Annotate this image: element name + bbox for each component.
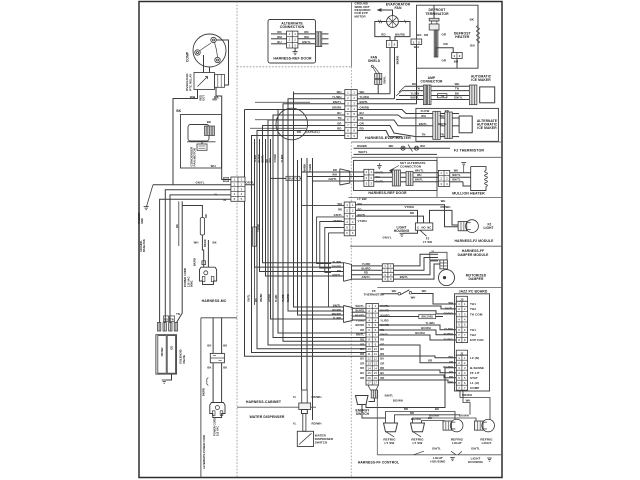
svg-text:BU/RD: BU/RD [332, 308, 341, 312]
svg-text:BK: BK [435, 407, 439, 411]
svg-text:BK/RB: BK/RB [395, 56, 399, 65]
compressor terminal C [195, 50, 200, 55]
wire overload to condenser right [216, 87, 231, 179]
harness-mc box top edge [201, 317, 237, 319]
alt ice cylinders [433, 111, 441, 139]
wire FF row right 2 [379, 311, 457, 314]
ff control box bottom [377, 454, 502, 456]
svg-text:OR: OR [380, 376, 384, 380]
wire through boxed label [379, 316, 419, 318]
refrig light switch 2 body [411, 423, 425, 432]
ff control box left edge [376, 390, 378, 455]
harness-evap/heater 9-pin connector [345, 90, 358, 139]
svg-text:HOUSING: HOUSING [394, 229, 410, 233]
J2 connector [456, 296, 467, 301]
wire energy to J1 BG/WH [366, 368, 456, 408]
svg-text:GN/YL: GN/YL [454, 96, 463, 100]
wires AMP left [405, 85, 423, 87]
solenoid coil water [158, 336, 166, 374]
F2 light bulb [458, 220, 478, 233]
svg-text:BU/GY: BU/GY [289, 177, 298, 181]
wire mc right yl/rd [245, 185, 255, 227]
svg-text:YL: YL [293, 395, 297, 399]
J1 connector [456, 350, 467, 355]
wire alt conn row3 [271, 43, 287, 45]
stat switch wire [381, 293, 398, 295]
svg-text:YL/WH: YL/WH [444, 327, 453, 331]
solenoid ground wire [166, 374, 171, 380]
svg-text:WH: WH [422, 289, 427, 293]
wires 9pin rows to alt ice box [357, 110, 416, 114]
svg-text:TN: TN [422, 133, 426, 137]
fan connector 1-2 box [386, 40, 397, 47]
svg-text:WH: WH [277, 35, 282, 39]
wire RD to switch NO [356, 216, 424, 223]
wire WH bottom [463, 391, 470, 415]
svg-text:10: 10 [374, 347, 378, 351]
svg-text:WH: WH [440, 114, 445, 118]
power cord plug main [200, 267, 217, 284]
wire bundle line 3 [283, 104, 366, 341]
svg-text:BK: BK [223, 344, 227, 348]
wire J1 RD row [379, 375, 457, 378]
wire shield down to bundle [377, 85, 379, 94]
svg-text:COMP: COMP [470, 386, 479, 390]
refrig light switch 1 body [384, 423, 398, 432]
svg-text:SWITCH: SWITCH [315, 440, 327, 444]
svg-text:RD: RD [410, 411, 414, 415]
svg-text:BU/RD: BU/RD [361, 266, 370, 270]
compressor motor circle [193, 34, 226, 67]
wire compressor S right side [216, 40, 229, 85]
wire bundle line 6 [268, 120, 366, 345]
wire terminator OR down left side [435, 30, 437, 48]
svg-text:VT/WH: VT/WH [333, 219, 342, 223]
svg-text:RD: RD [337, 269, 341, 273]
splice arrow [408, 145, 413, 152]
F2 light switch box [415, 223, 432, 230]
wire WH/BK splice line [354, 147, 451, 149]
evaporator fan circle [387, 16, 399, 28]
svg-text:YL/RD: YL/RD [362, 262, 371, 266]
wire vertical through circle [293, 92, 295, 308]
harness-mc 5-pin connector [231, 177, 245, 201]
svg-text:WH: WH [194, 241, 199, 245]
note arrow [378, 10, 393, 16]
band line F2 module bottom [350, 245, 502, 247]
wire cylinder down [254, 246, 256, 305]
svg-text:BK: BK [175, 224, 179, 228]
wire 1-2 to heater loop bottom [456, 59, 458, 69]
extra center verticals from 6-pin connector [317, 217, 345, 264]
svg-text:BN/TL: BN/TL [411, 96, 420, 100]
svg-text:BU: BU [380, 371, 384, 375]
ice maker box [480, 87, 495, 103]
wire bundle line 4 [278, 110, 366, 334]
svg-text:BK: BK [207, 365, 211, 369]
svg-text:BU/WH: BU/WH [421, 326, 431, 330]
refrig light bulb 1 [443, 419, 463, 432]
svg-text:RD: RD [404, 407, 408, 411]
svg-text:WH/BK: WH/BK [357, 144, 367, 148]
mullion pin block [438, 170, 449, 186]
svg-text:BN/YL: BN/YL [400, 275, 409, 279]
solenoid valve box [156, 335, 177, 374]
svg-text:ICE MAKER: ICE MAKER [477, 126, 497, 130]
light housing bracket 1 [414, 451, 425, 455]
wire bundle extra 6 [298, 160, 344, 315]
FF conn bottom taper [368, 385, 379, 390]
svg-text:OR: OR [380, 361, 384, 365]
wire alt conn row1 [271, 33, 287, 35]
svg-text:CONNECTION: CONNECTION [280, 25, 305, 29]
svg-text:WATER DISPENSER: WATER DISPENSER [249, 415, 284, 419]
damper pin connector [440, 260, 448, 269]
svg-text:GN/YL: GN/YL [195, 180, 204, 184]
svg-text:PTC RELAY: PTC RELAY [188, 73, 192, 91]
svg-text:BN/TL: BN/TL [415, 178, 423, 182]
svg-text:WH: WH [466, 398, 471, 402]
ice maker connector hatch [469, 85, 477, 105]
ref door cylinder 1 [392, 170, 400, 186]
svg-text:RD: RD [204, 214, 208, 218]
svg-text:BN/TL: BN/TL [452, 178, 460, 182]
svg-text:RD/WH: RD/WH [312, 395, 322, 399]
svg-text:BN/TL: BN/TL [452, 173, 460, 177]
svg-text:BASE PAN: BASE PAN [143, 239, 146, 252]
svg-text:WH: WH [212, 97, 217, 101]
wire steps to J2 lower rows [379, 325, 457, 330]
FF control thermostat circle [276, 108, 308, 140]
svg-text:L2 (N): L2 (N) [470, 356, 479, 360]
wire compressor R down [209, 67, 211, 73]
svg-text:YL: YL [293, 421, 297, 425]
svg-text:BK/RD: BK/RD [204, 239, 207, 247]
wire WH vertical to row3 [357, 45, 416, 104]
svg-text:11: 11 [368, 352, 371, 356]
svg-text:HARNESS-EVAP/HEATER: HARNESS-EVAP/HEATER [365, 136, 411, 140]
fan blades X [388, 17, 396, 25]
alt plug terminal [215, 406, 219, 410]
harness-mc box left edge [200, 318, 202, 478]
svg-text:WH/RD: WH/RD [332, 312, 341, 316]
svg-text:RD: RD [277, 30, 281, 34]
ref door ground [378, 163, 380, 166]
refrig light switch 1 wires [386, 412, 456, 424]
svg-text:SHIELD: SHIELD [368, 59, 381, 63]
svg-text:WH: WH [441, 199, 446, 203]
splice 2 [414, 146, 418, 150]
wire resistor bottom to plug [202, 235, 203, 267]
svg-text:14: 14 [374, 366, 378, 370]
svg-text:RD/WH: RD/WH [462, 393, 472, 397]
wire WH to F2 light [356, 205, 459, 227]
wire row1 right to fan wires [357, 93, 390, 95]
svg-text:OR: OR [449, 360, 453, 364]
fan connector ticks [379, 20, 381, 24]
alt plug slots [212, 411, 215, 416]
alt cord inline connector [210, 353, 224, 362]
light housing ground 1 [450, 458, 455, 461]
resistor component [200, 218, 204, 236]
defrost heater loop box [433, 5, 435, 18]
svg-text:WH: WH [211, 164, 216, 168]
svg-text:WH: WH [268, 158, 272, 162]
alt conn ground [294, 48, 296, 52]
svg-text:OR: OR [442, 33, 447, 37]
inline small box TN [438, 94, 447, 98]
svg-text:FLOW: FLOW [421, 109, 430, 113]
svg-text:HARNESS-REF DOOR: HARNESS-REF DOOR [273, 56, 312, 60]
svg-text:BK: BK [176, 109, 181, 113]
ref door left taper [340, 169, 350, 185]
AMP connector halves [423, 85, 426, 105]
wire bundle extra 2 [255, 139, 344, 267]
wire bundle extra 1 [245, 110, 367, 357]
svg-text:RD: RD [255, 298, 258, 302]
inline connector BU/GY [286, 176, 300, 180]
svg-text:BU: BU [360, 371, 364, 375]
solenoid pins hatched [157, 323, 160, 332]
svg-text:GY/RD: GY/RD [268, 294, 271, 302]
svg-text:BU: BU [380, 357, 384, 361]
svg-text:HARNESS-CABINET: HARNESS-CABINET [246, 400, 282, 404]
svg-text:WH/RD: WH/RD [355, 313, 364, 317]
svg-text:TL/RD: TL/RD [275, 294, 278, 302]
wire fan right loop [395, 22, 410, 41]
svg-text:16: 16 [368, 376, 372, 380]
svg-text:BU/RD: BU/RD [287, 294, 290, 302]
svg-text:J1: J1 [460, 351, 464, 355]
svg-text:HARNESS-F2 MODULE: HARNESS-F2 MODULE [455, 239, 495, 243]
center vertical to FF taper [329, 233, 337, 307]
alt ice square [459, 116, 472, 133]
svg-text:BN: BN [470, 44, 474, 48]
refrig light bulb 2 [475, 419, 495, 432]
svg-text:BK/RB: BK/RB [203, 388, 206, 396]
svg-text:RD: RD [164, 318, 168, 321]
svg-text:11: 11 [374, 352, 377, 356]
svg-text:YL/RD: YL/RD [333, 316, 341, 320]
border frame [139, 2, 502, 478]
divider harness-cabinet [237, 406, 316, 408]
svg-text:HOUSING: HOUSING [468, 460, 484, 464]
wire FF row right 1 [379, 306, 457, 309]
wire NC to lamp RD/WH [430, 210, 459, 225]
svg-text:DOT: DOT [201, 95, 205, 101]
svg-text:LT BW: LT BW [357, 197, 366, 201]
compressor terminal S [211, 37, 216, 42]
svg-text:HEATER: HEATER [455, 35, 470, 39]
svg-text:VALVE: VALVE [182, 355, 186, 364]
stat switch contact b [409, 292, 412, 295]
svg-text:BU/RD: BU/RD [257, 154, 261, 162]
svg-text:GN/YL: GN/YL [362, 275, 371, 279]
stat wire right [412, 294, 457, 305]
svg-text:BU/WH: BU/WH [459, 414, 469, 418]
svg-text:WH: WH [389, 144, 394, 148]
wire bundle line 9 [252, 136, 367, 353]
svg-text:RD: RD [380, 352, 384, 356]
alt ice wires [416, 113, 433, 115]
wire circle horizontal 3 [250, 127, 306, 129]
svg-text:BK: BK [207, 344, 211, 348]
svg-text:WH: WH [454, 169, 459, 173]
svg-text:YL/WH: YL/WH [425, 321, 434, 325]
condenser run capacitor [197, 144, 207, 150]
wire bundle line 8 [257, 131, 366, 349]
svg-text:15: 15 [368, 371, 372, 375]
alternate ice maker outer box [416, 108, 499, 141]
dispenser wire upper stubs [301, 158, 303, 172]
wire J1 BK row [379, 370, 457, 373]
alt cord wire right [221, 318, 223, 354]
compressor terminal R [215, 57, 220, 62]
ref door pin block [364, 169, 374, 186]
svg-text:FAN: FAN [394, 6, 402, 10]
svg-text:VT/WH: VT/WH [404, 205, 414, 209]
boxed label BK RD [419, 314, 436, 318]
svg-text:RD: RD [380, 337, 384, 341]
wire overload to condenser left [173, 90, 198, 185]
svg-text:EVP FAN: EVP FAN [470, 338, 483, 342]
wires AMP to ice maker [431, 85, 469, 87]
svg-text:BK/RD: BK/RD [355, 323, 364, 327]
svg-text:ICE: ICE [170, 346, 173, 351]
solenoid boxed label 1 [164, 316, 169, 322]
svg-text:BN/TL: BN/TL [261, 154, 265, 162]
svg-text:BK: BK [360, 347, 364, 351]
overload PTC relay box [194, 73, 215, 90]
svg-text:TH1: TH1 [470, 302, 476, 306]
svg-text:JAZZ PC BOARD: JAZZ PC BOARD [459, 290, 488, 294]
svg-text:FF LIT: FF LIT [470, 371, 480, 375]
svg-text:TN: TN [440, 94, 444, 98]
svg-text:LT SW: LT SW [413, 441, 423, 445]
svg-text:BU/WH: BU/WH [444, 332, 454, 336]
wire bundle extra 3 [260, 139, 344, 272]
wire J1 WH row [379, 356, 457, 358]
alternate power cord plug [210, 403, 225, 418]
svg-text:BU: BU [360, 357, 364, 361]
condenser motor base [187, 141, 216, 143]
switch lever [420, 230, 427, 236]
fan shield diagonals [373, 67, 377, 73]
svg-text:WH: WH [455, 82, 460, 86]
relay arrow [198, 77, 208, 87]
svg-text:YL/RD: YL/RD [282, 294, 285, 302]
wire fan left loop [375, 22, 390, 41]
svg-text:BK: BK [412, 82, 416, 86]
svg-text:OR: OR [442, 59, 447, 63]
svg-text:YL/RD: YL/RD [332, 260, 341, 264]
svg-text:BU/WH: BU/WH [429, 414, 439, 418]
svg-text:TH1: TH1 [470, 328, 476, 332]
svg-text:BU/WH: BU/WH [415, 331, 425, 335]
wire refdoor row to dispenser 3 [313, 181, 342, 420]
svg-text:HOUSING: HOUSING [430, 459, 446, 463]
svg-text:TERMINATOR: TERMINATOR [425, 12, 449, 16]
ref door 6-pin connector [344, 202, 355, 236]
wire bundle extra 5 [271, 139, 344, 319]
svg-text:OR: OR [428, 358, 432, 362]
light housing bracket 2 [458, 451, 462, 455]
section divider vertical middle top [351, 2, 353, 67]
svg-text:ALTERNATE POWER CORD: ALTERNATE POWER CORD [202, 435, 206, 469]
wire VT/WH to switch C [356, 210, 418, 223]
svg-text:WH: WH [411, 295, 416, 299]
motorized damper circle [439, 270, 455, 286]
svg-text:L1 (H): L1 (H) [470, 381, 479, 385]
alt cord wire left [212, 318, 214, 354]
svg-text:BK: BK [224, 179, 228, 182]
svg-text:MULLION HEATER: MULLION HEATER [452, 191, 485, 195]
svg-text:60HZ: 60HZ [190, 280, 194, 287]
svg-text:LIGHT: LIGHT [484, 226, 494, 230]
svg-text:BK: BK [223, 365, 227, 369]
dispenser actuator [302, 390, 308, 403]
water dispenser switch box [297, 431, 313, 446]
wire compressor C to overload [203, 55, 205, 73]
svg-text:RD: RD [364, 271, 368, 275]
wires taper2 to FF conn [352, 307, 366, 309]
svg-text:BK/RB: BK/RB [395, 32, 405, 36]
label BK mc boxed [223, 178, 228, 182]
svg-text:TN: TN [176, 312, 180, 316]
svg-text:10: 10 [368, 347, 372, 351]
wire inline to left [271, 177, 286, 179]
svg-text:WH/TL: WH/TL [358, 150, 368, 154]
wire row2 right [357, 98, 394, 100]
wire mc row3 left down [165, 190, 231, 323]
damper connector box [430, 252, 447, 260]
svg-text:17: 17 [374, 381, 378, 385]
svg-text:OR: OR [360, 361, 364, 365]
svg-text:RD/WH: RD/WH [312, 421, 322, 425]
band line F2 thermistor top [352, 141, 503, 143]
svg-text:BU/WH: BU/WH [444, 337, 454, 341]
svg-text:14: 14 [368, 366, 372, 370]
svg-text:BK: BK [213, 241, 217, 245]
svg-text:VT/WH: VT/WH [358, 219, 367, 223]
svg-text:BN/TL: BN/TL [419, 122, 428, 126]
svg-text:FAN MOTOR: FAN MOTOR [193, 147, 197, 166]
svg-text:WH: WH [304, 35, 309, 39]
svg-text:BU/RD: BU/RD [332, 264, 341, 268]
wire mc row5 left down [160, 199, 231, 322]
wire fan BK down to row1 [389, 48, 391, 94]
svg-text:HARNESS-FF CONTROL: HARNESS-FF CONTROL [358, 460, 399, 464]
svg-text:WATER: WATER [161, 347, 164, 356]
svg-text:RD: RD [381, 32, 385, 36]
inline cylinder yl/rd [253, 227, 257, 246]
svg-text:WH: WH [449, 301, 454, 305]
wire mc row4 left down [170, 195, 231, 323]
refrig light switch 2 wires [413, 418, 477, 423]
plug slots [202, 277, 205, 282]
brace BK/RB [207, 378, 209, 386]
svg-text:WH: WH [449, 355, 454, 359]
PTC relay sub-block [215, 75, 225, 88]
svg-text:WH/TL: WH/TL [355, 304, 364, 308]
vertical divider mullion heater box [436, 157, 438, 197]
svg-text:RD: RD [410, 211, 414, 215]
cabinet ground wire [147, 185, 154, 207]
damper taper [344, 263, 352, 282]
svg-text:RD/WH: RD/WH [441, 205, 451, 209]
svg-text:TN: TN [416, 87, 420, 91]
svg-text:RD: RD [360, 366, 364, 370]
